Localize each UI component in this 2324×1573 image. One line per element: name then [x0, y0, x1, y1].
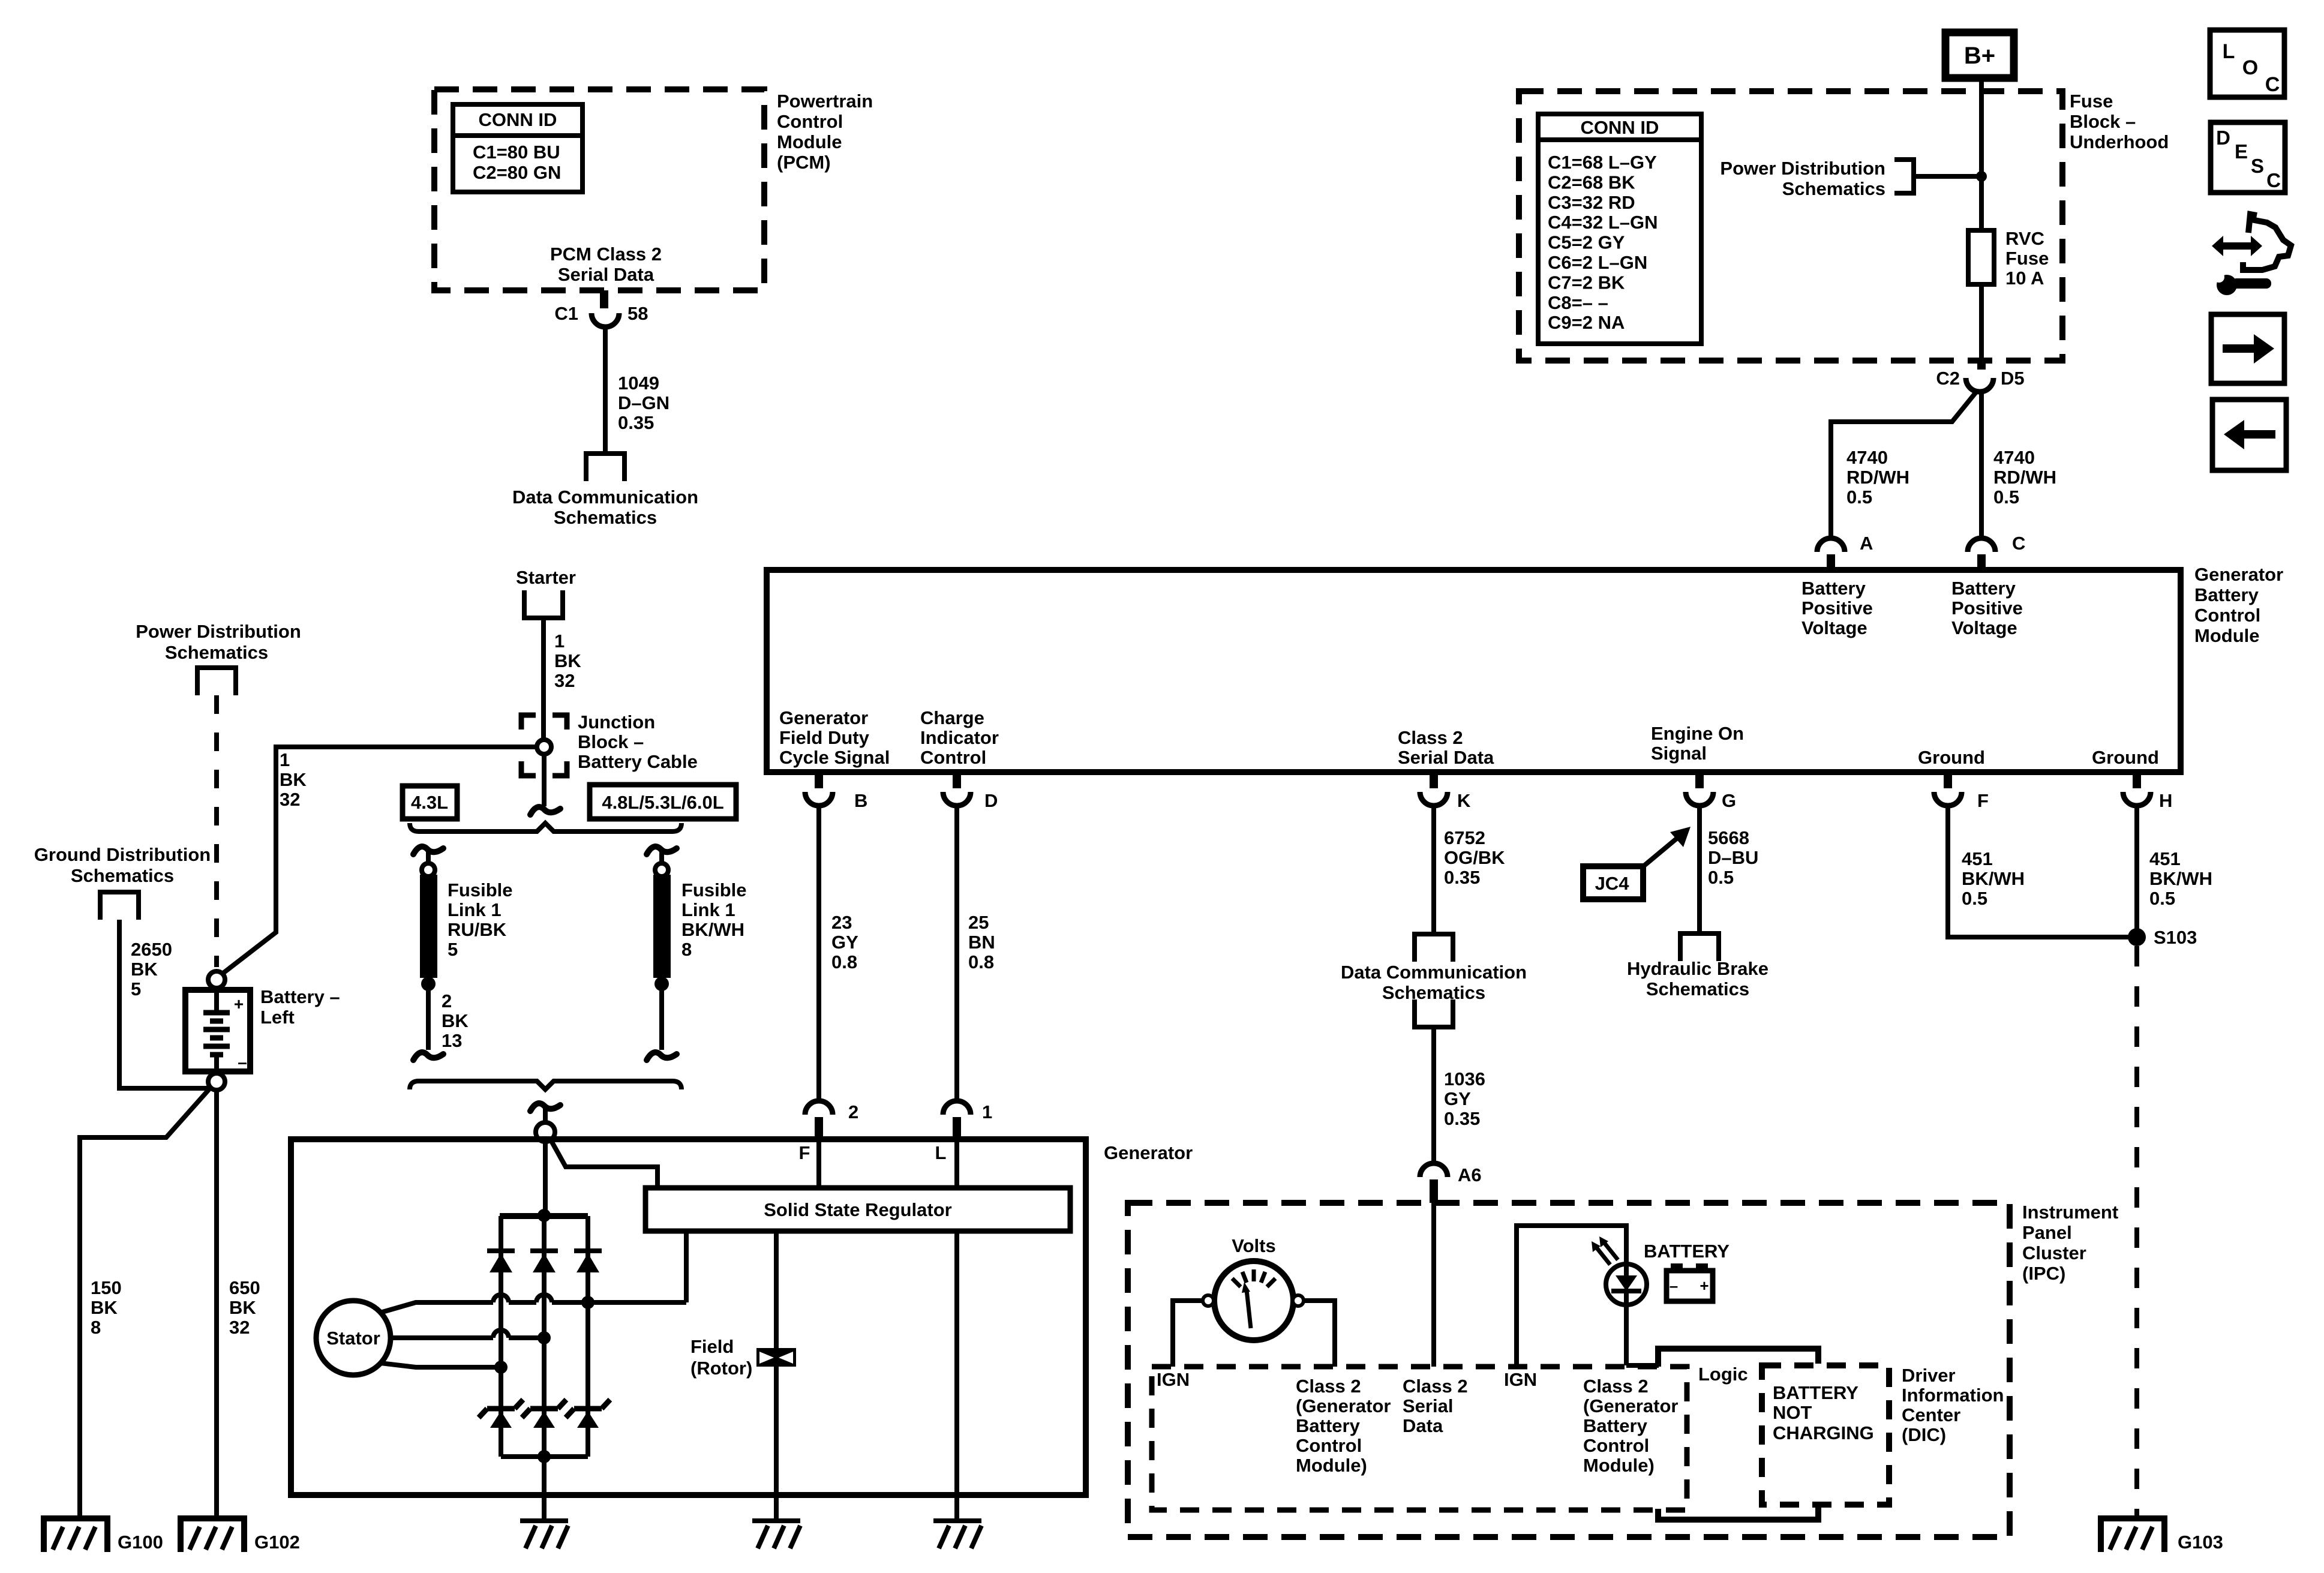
svg-text:RVC: RVC: [2005, 228, 2044, 249]
clip symbol at lower end (4.3L link): [413, 1052, 443, 1060]
svg-text:8: 8: [681, 939, 692, 960]
svg-text:(Rotor): (Rotor): [690, 1358, 752, 1379]
label Class 2 Serial Data (IPC): [1403, 1376, 1468, 1436]
svg-text:Stator: Stator: [326, 1328, 380, 1349]
svg-text:Hydraulic Brake: Hydraulic Brake: [1627, 958, 1768, 979]
rectifier upper bus: [500, 1213, 588, 1219]
svg-text:(IPC): (IPC): [2022, 1263, 2065, 1284]
svg-text:BK: BK: [131, 959, 158, 980]
svg-text:+: +: [234, 995, 244, 1013]
clip symbol below junction block: [530, 807, 560, 815]
label PCM Class 2 Serial Data: [550, 244, 662, 285]
wire 650 BK 32 from battery negative to G102: [214, 1090, 219, 1518]
label 23 GY 0.8: [831, 912, 858, 972]
stator phase wire (middle): [391, 1330, 544, 1338]
label Fusible Link 1 BK/WH 8: [681, 879, 747, 960]
fuse RVC 10 A: [1968, 230, 1994, 284]
battery positive terminal circle: [208, 971, 225, 988]
svg-text:4740: 4740: [1993, 447, 2035, 468]
label Generator Battery Control Module: [2194, 564, 2283, 646]
battery - left: [185, 988, 250, 1074]
svg-text:C1=80 BU: C1=80 BU: [473, 142, 560, 163]
svg-text:10 A: 10 A: [2005, 268, 2044, 289]
connector pin G of battery control module: [1686, 772, 1713, 806]
svg-text:Driver: Driver: [1902, 1365, 1956, 1386]
junction dot on B+ wire: [1976, 171, 1987, 182]
svg-text:(PCM): (PCM): [777, 152, 831, 173]
off-page reference to Hydraulic Brake Schematics: [1680, 933, 1719, 961]
wire 23 GY 0.8 (pin B to generator F): [816, 806, 821, 1101]
svg-text:Powertrain: Powertrain: [777, 91, 873, 112]
svg-text:8: 8: [91, 1317, 101, 1338]
rectifier diode (upper middle): [530, 1251, 558, 1272]
brace over fusible links (engine variants): [410, 823, 681, 831]
svg-text:IGN: IGN: [1157, 1369, 1190, 1390]
svg-text:0.8: 0.8: [968, 951, 994, 972]
dashed ground wire from S103 to G103: [2134, 946, 2139, 1518]
battery negative terminal circle: [208, 1073, 225, 1090]
label 1036 GY 0.35: [1444, 1068, 1485, 1129]
svg-text:1: 1: [280, 749, 290, 770]
label RVC Fuse 10 A: [2005, 228, 2049, 289]
svg-text:Fuse: Fuse: [2070, 91, 2113, 112]
svg-text:Serial Data: Serial Data: [1398, 747, 1494, 768]
junction dot below fusible link (4.8L): [654, 977, 669, 991]
label 150 BK 8: [91, 1277, 122, 1338]
svg-text:BK: BK: [442, 1010, 469, 1031]
svg-text:Schematics: Schematics: [1646, 978, 1749, 999]
svg-text:650: 650: [229, 1277, 260, 1298]
svg-text:RD/WH: RD/WH: [1993, 467, 2056, 488]
svg-text:Link 1: Link 1: [681, 899, 735, 920]
svg-text:Cycle Signal: Cycle Signal: [779, 747, 890, 768]
label 451 BK/WH 0.5 (F): [1962, 848, 2025, 909]
svg-text:G102: G102: [254, 1532, 300, 1553]
wire volts gauge to IGN: [1173, 1301, 1202, 1367]
svg-text:Control: Control: [1296, 1435, 1362, 1456]
svg-text:D–BU: D–BU: [1708, 847, 1758, 868]
svg-text:Ground: Ground: [1918, 747, 1985, 768]
connector pin C into battery control module: [1968, 538, 1995, 570]
svg-text:Data Communication: Data Communication: [1341, 962, 1527, 983]
svg-text:B: B: [854, 790, 867, 811]
label Junction Block - Battery Cable: [578, 712, 698, 772]
junction dot upper bus: [538, 1209, 551, 1222]
label Class 2 (Generator Battery Control Module) (lamp): [1583, 1376, 1678, 1476]
wire 451 BK/WH 0.5 (pin F to S103): [1948, 806, 2129, 937]
wire L inside generator (pin 1 to regulator): [954, 1139, 959, 1189]
svg-text:Fuse: Fuse: [2005, 248, 2049, 269]
stator winding circle: [316, 1301, 391, 1375]
DESC icon box: [2211, 122, 2285, 193]
wire L to ground: [954, 1231, 959, 1521]
svg-text:BK: BK: [280, 769, 307, 790]
Instrument Panel Cluster dashed box: [1128, 1203, 2010, 1537]
svg-text:(Generator: (Generator: [1296, 1395, 1391, 1416]
wire 150 BK 8 from battery negative to G100: [80, 1088, 211, 1518]
svg-text:C2=68 BK: C2=68 BK: [1548, 172, 1635, 193]
svg-text:1: 1: [554, 631, 565, 652]
svg-text:1: 1: [982, 1101, 992, 1122]
avalanche diode (lower right): [566, 1400, 610, 1428]
wire volts gauge to class 2 input: [1304, 1301, 1335, 1367]
svg-text:0.5: 0.5: [1708, 867, 1734, 888]
svg-text:BK: BK: [554, 650, 581, 671]
label Charge Indicator Control: [920, 707, 999, 768]
svg-text:Class 2: Class 2: [1398, 727, 1463, 748]
svg-text:Ground Distribution: Ground Distribution: [34, 844, 211, 865]
svg-text:Block –: Block –: [578, 731, 644, 752]
svg-text:F: F: [1977, 790, 1989, 811]
label 1049 D-GN 0.35: [618, 373, 669, 433]
svg-text:BK: BK: [229, 1297, 256, 1318]
svg-text:OG/BK: OG/BK: [1444, 847, 1505, 868]
connector pin A6 of instrument panel cluster: [1420, 1163, 1448, 1203]
svg-text:G103: G103: [2178, 1532, 2223, 1553]
svg-text:Fusible: Fusible: [448, 879, 513, 900]
BATTERY NOT CHARGING dashed box: [1762, 1365, 1889, 1505]
svg-text:2: 2: [442, 990, 452, 1011]
wire 4740 RD/WH right branch to pin C: [1979, 392, 1984, 539]
svg-text:(DIC): (DIC): [1902, 1424, 1946, 1445]
svg-text:4.3L: 4.3L: [411, 792, 448, 813]
clip symbol above fusible link 1 (4.3L): [413, 846, 443, 864]
svg-text:C2: C2: [1936, 368, 1960, 389]
wire 1036 GY 0.35: [1431, 1027, 1436, 1164]
svg-text:0.35: 0.35: [1444, 867, 1480, 888]
connector pin H of battery control module: [2123, 772, 2151, 806]
svg-text:Power Distribution: Power Distribution: [1720, 158, 1885, 179]
splice S103: [2128, 928, 2146, 946]
svg-text:C8=– –: C8=– –: [1548, 292, 1608, 313]
svg-text:Control: Control: [920, 747, 986, 768]
label Hydraulic Brake Schematics: [1627, 958, 1768, 999]
svg-text:Indicator: Indicator: [920, 727, 999, 748]
svg-text:2: 2: [848, 1101, 858, 1122]
svg-text:PCM Class 2: PCM Class 2: [550, 244, 662, 265]
label box 4.8L/5.3L/6.0L: [590, 785, 736, 819]
off-page reference from Data Communication Schematics (to IPC): [1415, 999, 1453, 1027]
junction block terminal circle: [537, 740, 551, 754]
svg-text:K: K: [1457, 790, 1471, 811]
Generator Battery Control Module box: [767, 570, 2181, 772]
svg-text:0.8: 0.8: [831, 951, 857, 972]
ground G100: [44, 1518, 107, 1552]
label Instrument Panel Cluster (IPC): [2022, 1202, 2118, 1284]
label Fusible Link 1 RU/BK 5: [448, 879, 513, 960]
svg-text:Cluster: Cluster: [2022, 1242, 2086, 1263]
svg-text:32: 32: [554, 670, 575, 691]
label Engine On Signal: [1651, 723, 1744, 764]
svg-text:Logic: Logic: [1698, 1364, 1748, 1385]
label Powertrain Control Module (PCM): [777, 91, 873, 173]
svg-text:451: 451: [1962, 848, 1993, 869]
Generator box: [291, 1139, 1086, 1495]
clip symbol at lower end (4.8L link): [647, 1052, 677, 1060]
svg-text:Instrument: Instrument: [2022, 1202, 2118, 1223]
svg-text:Solid State Regulator: Solid State Regulator: [764, 1199, 951, 1220]
svg-text:5: 5: [448, 939, 458, 960]
svg-text:S103: S103: [2154, 927, 2197, 948]
svg-text:Underhood: Underhood: [2070, 131, 2169, 152]
svg-text:BATTERY: BATTERY: [1644, 1241, 1730, 1262]
wire 5668 D-BU 0.5 (pin G): [1697, 806, 1702, 933]
svg-text:6752: 6752: [1444, 827, 1485, 848]
wire 2 BK 13: [426, 984, 431, 1050]
label 4740 RD/WH 0.5 (right): [1993, 447, 2056, 508]
svg-text:G: G: [1722, 790, 1736, 811]
connector pin 1 of generator: [943, 1101, 971, 1139]
connector pin A into battery control module: [1817, 538, 1845, 570]
svg-text:Class 2: Class 2: [1403, 1376, 1468, 1397]
svg-text:H: H: [2159, 790, 2172, 811]
svg-text:CHARGING: CHARGING: [1773, 1422, 1874, 1443]
PCM dashed module box (Powertrain Control Module): [434, 89, 764, 290]
svg-text:IGN: IGN: [1504, 1369, 1537, 1390]
svg-text:B+: B+: [1964, 43, 1995, 69]
fusible link 1 RU/BK 5 (4.3L): [420, 863, 437, 978]
svg-text:C5=2 GY: C5=2 GY: [1548, 232, 1625, 253]
label Power Distribution Schematics (fuse block): [1720, 158, 1885, 199]
svg-text:5: 5: [131, 978, 141, 999]
off-page reference from Starter: [524, 590, 563, 618]
wire from fusible link to generator node: [659, 984, 664, 1050]
wire 1 BK 32 from starter to junction block: [541, 618, 546, 740]
connector C2 pin D5 of fuse block: [1966, 361, 1993, 392]
svg-text:4.8L/5.3L/6.0L: 4.8L/5.3L/6.0L: [602, 792, 723, 813]
connector C1 pin 58 on PCM: [591, 290, 619, 327]
ground G103: [2101, 1518, 2164, 1552]
svg-text:A: A: [1860, 533, 1873, 554]
svg-text:Generator: Generator: [1104, 1142, 1193, 1163]
svg-text:Voltage: Voltage: [1801, 617, 1867, 638]
svg-text:Module): Module): [1583, 1455, 1655, 1476]
wire 25 BN 0.8 (pin D to generator L): [954, 806, 959, 1101]
svg-text:S: S: [2251, 155, 2264, 177]
clip symbol above fusible link 1 (4.8L/5.3L/6.0L): [647, 846, 677, 864]
svg-text:Block –: Block –: [2070, 111, 2136, 132]
svg-text:Battery: Battery: [1801, 578, 1866, 599]
junction dot below fusible link (4.3L): [421, 977, 436, 991]
avalanche diode (lower middle): [522, 1400, 566, 1428]
connector pin 2 of generator: [805, 1101, 833, 1139]
svg-text:Schematics: Schematics: [554, 507, 657, 528]
rectifier vertical wires: [501, 1216, 588, 1457]
wire 451 BK/WH 0.5 (pin H to S103): [2134, 806, 2139, 932]
svg-text:0.5: 0.5: [1962, 888, 1987, 909]
off-page reference to Data Communication Schematics (K wire): [1415, 934, 1453, 962]
short wire to generator battery terminal: [543, 1109, 548, 1123]
svg-text:Battery: Battery: [1583, 1415, 1648, 1436]
svg-text:Voltage: Voltage: [1951, 617, 2017, 638]
svg-text:Generator: Generator: [779, 707, 868, 728]
label box 4.3L: [403, 786, 457, 819]
svg-text:L: L: [2223, 40, 2235, 63]
svg-text:2650: 2650: [131, 939, 172, 960]
wire F inside generator (pin 2 to regulator): [816, 1139, 821, 1189]
connector pin F of battery control module: [1934, 772, 1962, 806]
label 25 BN 0.8: [968, 912, 995, 972]
svg-text:23: 23: [831, 912, 852, 933]
label Class 2 Serial Data (module): [1398, 727, 1494, 768]
svg-text:Fusible: Fusible: [681, 879, 747, 900]
wire 2650 BK 5 to battery negative: [119, 920, 211, 1088]
svg-text:0.5: 0.5: [2149, 888, 2175, 909]
wire 1049 D-GN 0.35 from PCM C1: [603, 327, 608, 454]
svg-text:Battery: Battery: [1296, 1415, 1361, 1436]
PCM CONN ID table: [453, 104, 582, 192]
svg-text:Charge: Charge: [920, 707, 984, 728]
off-page reference to Data Communication Schematics (PCM): [586, 454, 624, 481]
svg-text:Schematics: Schematics: [1382, 982, 1485, 1003]
svg-text:Volts: Volts: [1232, 1235, 1276, 1256]
label 650 BK 32: [229, 1277, 260, 1338]
svg-text:150: 150: [91, 1277, 122, 1298]
svg-text:Data Communication: Data Communication: [512, 487, 698, 508]
wire IGN to battery indicator: [1517, 1226, 1626, 1367]
junction dot stator bottom phase: [494, 1361, 508, 1374]
ground G102: [181, 1518, 244, 1552]
label 1 BK 32 (starter wire): [554, 631, 581, 691]
svg-text:Starter: Starter: [516, 567, 576, 588]
off-page reference from Power Distribution Schematics: [197, 668, 236, 695]
svg-text:C7=2 BK: C7=2 BK: [1548, 272, 1625, 293]
svg-text:0.5: 0.5: [1846, 487, 1872, 508]
svg-text:Module): Module): [1296, 1455, 1367, 1476]
fusible link 1 BK/WH 8 (4.8L/5.3L/6.0L): [653, 863, 671, 978]
svg-text:+: +: [1700, 1277, 1709, 1295]
svg-text:Ground: Ground: [2092, 747, 2159, 768]
generator case ground wire: [542, 1457, 547, 1521]
right-arrow icon box: [2211, 314, 2284, 383]
rectifier diode (upper right): [574, 1251, 602, 1272]
svg-text:Panel: Panel: [2022, 1222, 2072, 1243]
generator battery terminal node circle: [536, 1122, 555, 1142]
label 4740 RD/WH 0.5 (left): [1846, 447, 1909, 508]
svg-text:Positive: Positive: [1951, 598, 2023, 619]
field wire from regulator through rotor to ground: [774, 1231, 779, 1521]
svg-text:GY: GY: [831, 932, 858, 953]
svg-text:Serial Data: Serial Data: [558, 264, 654, 285]
svg-text:D5: D5: [2001, 368, 2025, 389]
svg-text:JC4: JC4: [1595, 873, 1630, 894]
svg-text:Field Duty: Field Duty: [779, 727, 870, 748]
IPC connector row dashed box: [1152, 1367, 1687, 1510]
label Driver Information Center (DIC): [1902, 1365, 2004, 1445]
wire from junction block down to engine harness split: [542, 754, 547, 806]
label BATTERY NOT CHARGING: [1773, 1382, 1874, 1443]
svg-text:BK/WH: BK/WH: [1962, 868, 2025, 889]
battery pictograph icon: [1667, 1263, 1713, 1301]
dashed wire from Power Distribution Schematics to battery positive: [214, 695, 219, 967]
svg-text:451: 451: [2149, 848, 2181, 869]
svg-text:Module: Module: [2194, 625, 2260, 646]
svg-text:Power Distribution: Power Distribution: [136, 621, 301, 642]
junction dot stator middle phase: [538, 1331, 551, 1344]
svg-text:D: D: [2216, 127, 2230, 149]
serial data wire inside IPC: [1431, 1203, 1436, 1367]
svg-text:58: 58: [627, 303, 648, 324]
svg-text:GY: GY: [1444, 1088, 1471, 1109]
label Ground Distribution Schematics: [34, 844, 211, 886]
generator ground symbol: [520, 1521, 568, 1548]
label 2650 BK 5: [131, 939, 172, 999]
svg-text:Serial: Serial: [1403, 1395, 1453, 1416]
wire from node to rectifier bridge: [543, 1142, 548, 1216]
svg-text:Class 2: Class 2: [1583, 1376, 1649, 1397]
svg-text:Battery: Battery: [2194, 584, 2259, 605]
label Field (Rotor): [690, 1336, 752, 1379]
wire 6752 OG/BK 0.35 (pin K): [1431, 806, 1436, 934]
svg-text:Schematics: Schematics: [71, 865, 174, 886]
svg-text:C3=32 RD: C3=32 RD: [1548, 192, 1635, 213]
label 6752 OG/BK 0.35: [1444, 827, 1505, 888]
svg-text:CONN ID: CONN ID: [479, 109, 557, 130]
brace under fusible links: [410, 1081, 681, 1089]
svg-text:F: F: [799, 1142, 810, 1163]
svg-text:Engine On: Engine On: [1651, 723, 1744, 744]
stator phase wire (top) to rectifier and regulator: [380, 1231, 686, 1313]
label Generator Field Duty Cycle Signal: [779, 707, 890, 768]
junction dot stator top phase: [581, 1296, 594, 1309]
svg-text:0.35: 0.35: [1444, 1108, 1480, 1129]
label 2 BK 13: [442, 990, 469, 1051]
svg-text:BK: BK: [91, 1297, 118, 1318]
Logic block: [1658, 1349, 1818, 1520]
svg-text:RU/BK: RU/BK: [448, 919, 507, 940]
wire from LED to logic block: [1626, 1305, 1659, 1365]
svg-text:Field: Field: [690, 1336, 734, 1357]
svg-text:G100: G100: [118, 1532, 163, 1553]
svg-text:NOT: NOT: [1773, 1402, 1812, 1423]
svg-text:(Generator: (Generator: [1583, 1395, 1678, 1416]
svg-text:D: D: [984, 790, 998, 811]
connector pin K of battery control module: [1420, 772, 1448, 806]
schematic-section icon (double arrow, outline, wrench): [2212, 214, 2291, 295]
label Data Communication Schematics (top): [512, 487, 698, 528]
svg-text:Battery Cable: Battery Cable: [578, 751, 698, 772]
svg-text:5668: 5668: [1708, 827, 1749, 848]
svg-text:32: 32: [229, 1317, 250, 1338]
label Battery - Left: [260, 986, 340, 1028]
Fuse block CONN ID table: [1538, 114, 1701, 344]
svg-text:C: C: [2266, 169, 2281, 191]
svg-text:Battery –: Battery –: [260, 986, 340, 1007]
label Fuse Block - Underhood: [2070, 91, 2169, 152]
svg-text:Center: Center: [1902, 1404, 1960, 1425]
stator phase wire (bottom): [380, 1363, 501, 1367]
Fuse Block - Underhood dashed box: [1519, 91, 2062, 361]
left-arrow icon box: [2212, 400, 2286, 470]
svg-text:Junction: Junction: [578, 712, 655, 733]
svg-text:Information: Information: [1902, 1385, 2004, 1406]
connector pin B of battery control module: [805, 772, 833, 806]
svg-text:BN: BN: [968, 932, 995, 953]
label Battery Positive Voltage (pin A): [1801, 578, 1873, 638]
svg-text:Left: Left: [260, 1007, 295, 1028]
label Data Communication Schematics (middle): [1341, 962, 1527, 1003]
svg-text:1049: 1049: [618, 373, 659, 394]
junction dot lower bus: [538, 1450, 551, 1463]
svg-text:Module: Module: [777, 131, 842, 152]
svg-text:C2=80 GN: C2=80 GN: [473, 162, 561, 183]
svg-text:Schematics: Schematics: [165, 642, 268, 663]
JC4 callout box with arrow: [1583, 827, 1691, 899]
svg-text:E: E: [2235, 140, 2248, 163]
label Battery Positive Voltage (pin C): [1951, 578, 2023, 638]
svg-text:C6=2 L–GN: C6=2 L–GN: [1548, 252, 1647, 273]
svg-text:Class 2: Class 2: [1296, 1376, 1361, 1397]
